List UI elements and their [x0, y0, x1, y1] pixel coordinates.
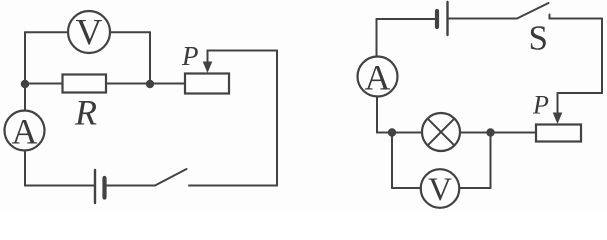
- wire: step left toward wiper: [558, 92, 603, 94]
- node A junction dot: [21, 80, 29, 88]
- wire: node D down to voltmeter branch: [490, 133, 492, 189]
- wire: voltmeter branch left horizontal: [392, 187, 421, 189]
- wire: node A to resistor R: [25, 83, 63, 85]
- wire: bottom-left to battery: [25, 185, 94, 187]
- svg-text:V: V: [76, 13, 103, 54]
- svg-text:S: S: [529, 19, 548, 58]
- wire: ammeter down to jog: [376, 97, 378, 133]
- svg-text:P: P: [532, 91, 549, 120]
- wire: right vertical of left circuit: [276, 51, 278, 186]
- voltmeter V1 circle: [68, 11, 110, 53]
- wire: right vertical down to step: [601, 19, 603, 94]
- wire: voltmeter branch right horizontal: [459, 187, 490, 189]
- potentiometer P2 body: [536, 125, 581, 142]
- battery B1 short plate: [102, 178, 106, 198]
- svg-text:A: A: [365, 58, 391, 98]
- wire: voltmeter right to corner: [110, 31, 150, 33]
- wire: top-left horizontal to voltmeter: [25, 31, 68, 33]
- wire: battery to switch: [107, 185, 156, 187]
- wire: switch to bottom-right corner: [189, 185, 277, 187]
- ammeter A1 circle: [5, 111, 45, 151]
- svg-text:V: V: [428, 172, 452, 208]
- switch S1 blade: [155, 169, 187, 186]
- battery B1 long plate: [94, 170, 96, 203]
- potentiometer P body: [185, 74, 229, 94]
- wire: top-left to battery: [377, 18, 436, 20]
- svg-text:P: P: [181, 41, 199, 71]
- wire: node B to potentiometer P left terminal: [150, 83, 185, 85]
- battery B2 long plate: [446, 2, 448, 35]
- potentiometer P wiper arrow: [207, 51, 209, 63]
- node B junction dot: [146, 80, 154, 88]
- ammeter A2 circle: [358, 57, 398, 97]
- wire: switch to top-right corner: [550, 18, 603, 20]
- potentiometer P2 wiper arrow: [557, 93, 559, 113]
- wire: right corner of voltmeter branch down to node B: [149, 32, 151, 84]
- wire: resistor R to node B: [106, 83, 150, 85]
- voltmeter V2 circle: [421, 169, 460, 208]
- wire: left vertical from top corner to ammeter: [376, 19, 378, 57]
- svg-text:R: R: [74, 93, 97, 133]
- wire: lamp to node D: [460, 132, 487, 134]
- wire: battery to switch S: [449, 18, 517, 20]
- wire: ammeter to bottom-left corner: [24, 151, 26, 186]
- battery B2 short plate: [435, 11, 439, 27]
- svg-text:A: A: [12, 112, 38, 152]
- switch S fixed contact tick: [549, 15, 551, 19]
- wire: node D to potentiometer P2: [491, 132, 537, 134]
- switch S blade: [517, 3, 549, 19]
- wire: left vertical from top corner to ammeter: [24, 32, 26, 110]
- node C junction dot: [388, 128, 396, 136]
- node D junction dot: [486, 128, 494, 136]
- wire: jog right to node C: [377, 132, 388, 134]
- resistor R body: [63, 75, 107, 93]
- lamp L1 circle: [422, 113, 460, 151]
- wire: node C down to voltmeter branch: [391, 133, 393, 189]
- wire: wiper to top-right corner: [208, 50, 278, 52]
- wire: node C to lamp: [392, 132, 422, 134]
- lamp L1 cross: [428, 119, 455, 146]
